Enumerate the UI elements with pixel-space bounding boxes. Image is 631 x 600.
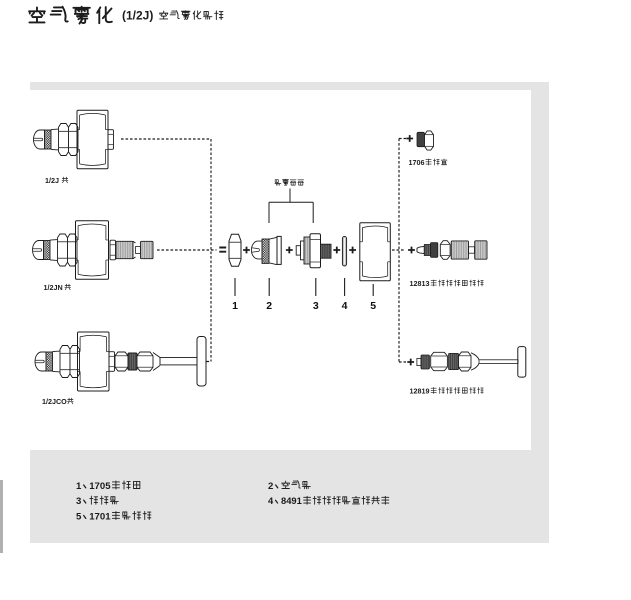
plus 3 (333, 247, 340, 254)
wire: stub from part5 to 12813 (392, 249, 404, 251)
hex nut 2 (70, 346, 80, 378)
nozzle body block (360, 223, 391, 281)
svg-text:5: 5 (370, 300, 376, 312)
CO valve hex (115, 352, 128, 371)
svg-text:2: 2 (266, 300, 272, 312)
hex nut 2 (68, 234, 78, 266)
label 12813号断流针阀组件 (410, 279, 484, 288)
knurled retaining band (crosshatch) (44, 241, 51, 260)
wire: dashed from 1/2J to junction (121, 138, 211, 140)
svg-text:1701: 1701 (89, 512, 111, 523)
svg-text:3: 3 (76, 496, 81, 507)
12813 needle valve assembly (417, 246, 424, 253)
label 1/2J型 (45, 176, 68, 185)
CO valve T-handle (197, 337, 206, 387)
knurled retaining band (crosshatch) (45, 130, 52, 149)
legend 4 8491号 (268, 495, 389, 506)
wire: right vertical dashed (398, 139, 400, 363)
plus 12813 (408, 247, 415, 254)
svg-text:(1/2J): (1/2J) (122, 9, 153, 23)
svg-text:5: 5 (76, 512, 82, 523)
title 空气雾化 (29, 7, 112, 24)
CO valve long stem (160, 358, 197, 365)
svg-text:12819: 12819 (410, 387, 430, 396)
1706 plug dark hex (417, 132, 425, 146)
nozzle tip dome (34, 130, 45, 149)
svg-text:1/2JN: 1/2JN (44, 283, 63, 292)
part 4: gasket (342, 236, 346, 266)
left edge gray tab (0, 480, 3, 553)
subtitle 空气雾化喷嘴 (160, 11, 223, 20)
needle valve knurled cylinder (116, 241, 133, 258)
retainer cylinder (53, 351, 61, 372)
plus 2 (286, 247, 293, 254)
knurled knob (141, 241, 154, 258)
legend 2 空气帽 (268, 481, 310, 492)
label 1706号栓塞 (409, 158, 447, 167)
wire: left vertical dashed (210, 139, 212, 362)
CO valve hex nut (137, 352, 153, 371)
hex nut 1 (58, 234, 68, 266)
retainer cylinder (50, 240, 58, 261)
hex nut 2 (69, 124, 79, 156)
side port hex (108, 130, 114, 150)
svg-text:12813: 12813 (410, 279, 430, 288)
side port hex (110, 240, 116, 260)
1706 plug hex (425, 131, 434, 150)
valve stem (136, 247, 141, 254)
item leader ticks (235, 278, 373, 296)
label 喷雾装置 (275, 179, 304, 185)
nozzle tip dome (35, 352, 46, 371)
knurled retaining band (crosshatch) (46, 352, 53, 371)
label 12819号清除针阀组件 (410, 387, 484, 396)
gray panel frame (30, 82, 549, 543)
part 1: retaining ring nut (229, 234, 241, 266)
legend 3 液体帽 (76, 496, 118, 507)
label 1/2JN型 (44, 283, 71, 292)
svg-text:2: 2 (268, 481, 273, 492)
svg-text:1/2J: 1/2J (45, 176, 59, 185)
wire: stub to 1/2JCO (207, 361, 212, 363)
svg-text:4: 4 (342, 300, 348, 312)
nozzle tip dome (33, 241, 44, 260)
svg-text:1: 1 (232, 300, 238, 312)
svg-text:1706: 1706 (409, 158, 425, 167)
plus 12819 (407, 359, 414, 366)
legend 5 1701号喷嘴体 (76, 511, 151, 522)
label 1/2JCO型 (42, 397, 73, 406)
part 3: fluid cap (296, 246, 300, 255)
svg-text:4: 4 (268, 495, 274, 506)
hex nut 1 (59, 124, 69, 156)
plus 4 (349, 247, 356, 254)
retainer cylinder (51, 129, 59, 150)
svg-text:3: 3 (313, 300, 319, 312)
white diagram area (30, 90, 531, 450)
nozzle body block (78, 332, 110, 391)
CO valve threaded dark band (128, 353, 137, 370)
equals sign (219, 248, 226, 252)
wire: stub to 12819 (399, 361, 406, 363)
nozzle body block (76, 221, 109, 279)
svg-text:8491: 8491 (281, 495, 302, 506)
svg-text:1: 1 (76, 481, 82, 492)
12819 cleanout needle valve assembly (417, 358, 421, 365)
plus 1 (243, 247, 250, 254)
svg-text:1705: 1705 (89, 481, 111, 492)
wire: stub to 1706 plug (399, 138, 406, 140)
taper (153, 353, 160, 371)
part 2: air cap (251, 241, 262, 259)
hex nut 1 (60, 346, 70, 378)
svg-text:1/2JCO: 1/2JCO (42, 397, 67, 406)
side port hex (109, 352, 115, 372)
nozzle body block (77, 110, 108, 169)
legend 1 1705号护圈 (76, 481, 140, 492)
plus 1706 (406, 135, 413, 142)
wire: dashed from 1/2JN to equals (157, 249, 217, 251)
